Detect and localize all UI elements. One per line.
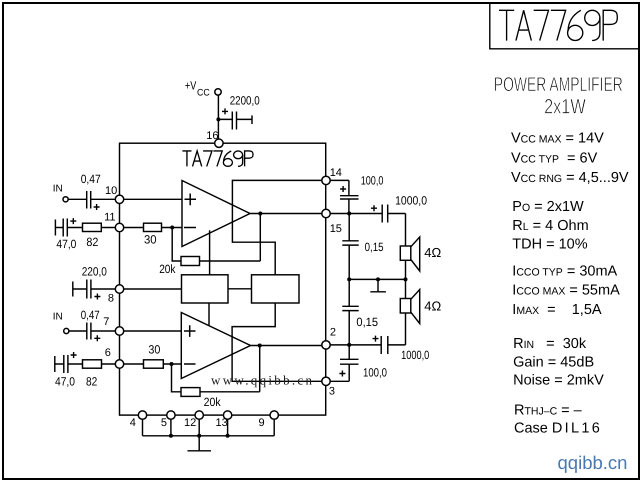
op-amp U1b xyxy=(181,313,250,379)
svg-text:ICCO MAX = 55mA: ICCO MAX = 55mA xyxy=(512,282,620,298)
node U1a output xyxy=(258,212,262,216)
IC U1 TA7769P package outline xyxy=(120,143,326,415)
capacitor C10 0,15 xyxy=(348,279,350,345)
wire pin 12 stub xyxy=(198,419,200,436)
svg-text:30: 30 xyxy=(148,343,160,357)
pin 13 xyxy=(223,411,231,419)
pin 15 xyxy=(322,209,330,217)
wire block B1 to block B2 xyxy=(228,288,252,290)
svg-text:82: 82 xyxy=(86,235,98,249)
svg-text:100,0: 100,0 xyxy=(361,174,384,188)
title text TA7769P xyxy=(499,10,617,40)
pin 10 xyxy=(115,195,123,203)
svg-text:2: 2 xyxy=(330,326,336,338)
svg-text:10: 10 xyxy=(105,185,117,197)
wire speaker LS1 to mid node xyxy=(405,260,407,279)
capacitor C5 0,47 plates xyxy=(87,323,91,340)
svg-text:POWER AMPLIFIER: POWER AMPLIFIER xyxy=(494,74,623,96)
plus C11 xyxy=(373,336,379,342)
svg-text:Case DIL16: Case DIL16 xyxy=(514,420,602,436)
svg-text:+V: +V xyxy=(185,79,196,93)
svg-text:CC: CC xyxy=(197,87,210,98)
wire IN2 to pin 7 to op-amp U1b +in xyxy=(69,330,182,332)
plus C12 xyxy=(339,371,345,377)
terminal end bar of C1 xyxy=(251,115,253,124)
svg-text:IMAX = 1,5A: IMAX = 1,5A xyxy=(512,302,602,318)
plus C6 xyxy=(71,352,77,358)
svg-text:RTHJ–C = –: RTHJ–C = – xyxy=(514,402,583,418)
node U1b output xyxy=(258,344,262,348)
wire pin 14 internal to block B2 xyxy=(232,180,322,274)
plus C7 xyxy=(340,186,346,192)
pin 7 xyxy=(115,327,123,335)
svg-text:4: 4 xyxy=(130,417,136,429)
wire C4 chain to pin 8 to block B1 xyxy=(73,288,182,290)
node mid left xyxy=(347,277,351,281)
node bus 12 xyxy=(197,434,201,438)
ground bottom xyxy=(188,436,212,451)
wire pin 9 stub xyxy=(273,419,275,436)
pin 11 xyxy=(115,223,123,231)
pin 3 xyxy=(322,377,330,385)
svg-text:0,47: 0,47 xyxy=(81,172,101,186)
svg-text:47,0: 47,0 xyxy=(56,237,76,251)
wire pin 13 stub xyxy=(227,419,229,436)
plus C3 xyxy=(70,218,76,224)
wire block B1 top to op-amp U1a xyxy=(209,230,211,274)
svg-text:13: 13 xyxy=(216,417,228,429)
junction dots xyxy=(169,117,408,437)
svg-text:0,15: 0,15 xyxy=(356,315,378,329)
svg-text:IN: IN xyxy=(53,183,63,194)
node U1b inverting xyxy=(170,362,174,366)
plus C4 xyxy=(94,294,100,300)
spec lines xyxy=(511,131,629,437)
capacitor C1 2200,0 plates xyxy=(232,112,236,130)
capacitor C9 0,15 plates xyxy=(342,241,358,245)
terminal IN2 xyxy=(64,328,69,333)
resistor R5 30 xyxy=(144,360,164,368)
terminal IN1 xyxy=(63,197,68,202)
wire feedback op-amp U1b xyxy=(172,346,260,392)
pin 9 xyxy=(270,411,278,419)
pin 8 xyxy=(115,285,123,293)
capacitor C4 220,0 end bar xyxy=(72,282,74,297)
resistor R1 82 xyxy=(83,223,102,231)
svg-text:1000,0: 1000,0 xyxy=(395,193,427,207)
wire junction to capacitor C12 100,0 to pin 3 xyxy=(330,345,349,381)
pin 6 xyxy=(115,360,123,368)
terminal +Vcc xyxy=(215,89,221,95)
plus C5 xyxy=(94,335,100,341)
op-amp U1a xyxy=(182,181,250,247)
svg-text:20k: 20k xyxy=(204,395,222,409)
pin circles xyxy=(63,89,330,420)
capacitor C3 47,0 plates xyxy=(63,219,67,237)
svg-text:0,15: 0,15 xyxy=(365,240,384,254)
svg-text:3: 3 xyxy=(329,385,335,397)
pin 12 xyxy=(195,411,203,419)
svg-text:15: 15 xyxy=(330,223,342,235)
node mid right xyxy=(404,277,408,281)
svg-text:14: 14 xyxy=(330,167,342,179)
capacitor C7 100,0 plates xyxy=(340,196,359,199)
pin 4 xyxy=(138,411,146,419)
svg-text:TDH = 10%: TDH = 10% xyxy=(512,236,587,252)
node mid ground xyxy=(376,277,380,281)
capacitor C3 47,0 end bar xyxy=(54,220,56,236)
wire pin 4 stub xyxy=(142,419,144,436)
block B2 xyxy=(252,275,300,303)
right panel heading POWER AMPLIFIER xyxy=(494,74,623,119)
wire op-amp U1a output to pin 15 xyxy=(250,213,322,215)
svg-text:IN: IN xyxy=(53,312,63,323)
op-amp U1a minus sign xyxy=(184,227,196,229)
svg-text:30: 30 xyxy=(144,233,157,247)
plus C8 xyxy=(371,205,377,211)
wire pin 5 stub xyxy=(170,419,172,436)
wire pin 15 to capacitor C8 to speaker LS1 xyxy=(330,214,406,247)
ground mid xyxy=(370,279,386,291)
svg-text:16: 16 xyxy=(206,130,218,142)
svg-text:6: 6 xyxy=(105,347,111,359)
svg-text:Noise = 2mkV: Noise = 2mkV xyxy=(513,372,604,388)
capacitor C6 47,0 plates xyxy=(64,355,68,373)
pin 14 xyxy=(322,176,330,184)
node Vcc-C1 xyxy=(216,117,220,121)
svg-text:ICCO TYP = 30mA: ICCO TYP = 30mA xyxy=(512,264,617,280)
wire mid node xyxy=(349,278,405,280)
svg-text:1000,0: 1000,0 xyxy=(401,348,429,362)
svg-text:Gain = 45dB: Gain = 45dB xyxy=(513,355,594,371)
svg-text:220,0: 220,0 xyxy=(82,264,107,278)
svg-text:4Ω: 4Ω xyxy=(424,245,441,260)
pin 5 xyxy=(167,411,175,419)
speaker LS1 xyxy=(400,246,411,260)
title box xyxy=(490,3,639,49)
svg-text:RIN = 30k: RIN = 30k xyxy=(513,336,587,352)
wire junction to capacitor 2200,0 xyxy=(218,118,252,120)
svg-text:5: 5 xyxy=(161,417,167,429)
wire C3 chain to pin 11 to op-amp U1a -in xyxy=(55,227,182,229)
wire ground bus xyxy=(143,435,275,437)
label TA7769P on IC xyxy=(182,151,253,166)
wire op-amp U1b output to pin 2 xyxy=(251,345,323,347)
node pin2 line xyxy=(347,343,351,347)
resistor R2 30 xyxy=(144,223,162,231)
svg-text:2x1W: 2x1W xyxy=(544,96,586,119)
svg-text:11: 11 xyxy=(104,211,115,223)
svg-text:VCC MAX = 14V: VCC MAX = 14V xyxy=(511,131,604,147)
plus C2 xyxy=(94,204,100,210)
svg-text:qqibb.cn: qqibb.cn xyxy=(558,452,628,473)
node pin15 line xyxy=(347,212,351,216)
capacitor C2 0,47 plates xyxy=(87,191,91,209)
svg-text:47,0: 47,0 xyxy=(55,375,75,389)
capacitor C11 1000,0 plates xyxy=(381,336,388,354)
op-amp U1b plus sign xyxy=(184,325,196,337)
svg-text:2200,0: 2200,0 xyxy=(230,93,260,107)
svg-text:12: 12 xyxy=(184,417,196,429)
watermark www.qqibb.cn xyxy=(211,373,314,388)
svg-text:VCC TYP = 6V: VCC TYP = 6V xyxy=(511,151,598,167)
svg-text:www.qqibb.cn: www.qqibb.cn xyxy=(211,373,314,388)
site mark qqibb.cn xyxy=(558,452,628,473)
wire C6 chain to pin 6 to op-amp U1b -in xyxy=(55,363,182,365)
resistor R4 82 xyxy=(83,360,102,368)
svg-text:100,0: 100,0 xyxy=(363,365,387,379)
plus C1 xyxy=(222,108,228,114)
svg-text:0,47: 0,47 xyxy=(81,308,100,322)
node bus 13 xyxy=(226,434,230,438)
capacitor C10 0,15 plates xyxy=(342,306,358,310)
wire +Vcc to pin 16 xyxy=(217,95,219,143)
svg-text:4Ω: 4Ω xyxy=(424,299,441,314)
svg-text:RL = 4 Ohm: RL = 4 Ohm xyxy=(512,218,588,234)
block B1 xyxy=(182,275,229,303)
capacitor C8 1000,0 plates xyxy=(382,205,388,223)
node bus 5 xyxy=(169,434,173,438)
op-amp U1b minus sign xyxy=(184,363,196,365)
wire pin 14 to capacitor C7 xyxy=(330,180,349,213)
svg-text:VCC RNG = 4,5...9V: VCC RNG = 4,5...9V xyxy=(511,170,629,186)
wire IN1 to pin 10 to op-amp U1a +in xyxy=(68,198,182,200)
capacitor C12 100,0 plates xyxy=(340,359,359,364)
speaker LS2 xyxy=(400,299,411,314)
capacitor C4 220,0 plates xyxy=(87,280,91,299)
svg-text:PO = 2x1W: PO = 2x1W xyxy=(512,199,584,215)
svg-text:20k: 20k xyxy=(159,262,176,276)
wire pin 2 to capacitor C11 to speaker LS2 xyxy=(330,313,406,345)
wire block B1 bottom to op-amp U1b xyxy=(208,303,210,326)
op-amp U1a plus sign xyxy=(185,194,197,206)
capacitor C6 47,0 end bar xyxy=(54,356,56,372)
svg-text:8: 8 xyxy=(108,293,114,305)
wire junction to capacitor C9 0,15 xyxy=(348,214,350,280)
pin 2 xyxy=(322,341,330,349)
wire mid node to speaker LS2 xyxy=(405,279,407,298)
resistor R3 20k xyxy=(181,257,200,266)
svg-text:82: 82 xyxy=(86,375,98,389)
svg-text:7: 7 xyxy=(103,316,109,328)
wire pin 3 internal to block B2 bottom xyxy=(232,303,322,381)
resistor R6 20k xyxy=(181,388,200,397)
wire feedback op-amp U1a xyxy=(172,214,260,262)
capacitor plus marks xyxy=(70,108,378,376)
node U1a inverting xyxy=(170,226,174,230)
svg-text:9: 9 xyxy=(259,417,265,429)
schematic text labels xyxy=(53,79,442,429)
pin 16 xyxy=(215,139,223,147)
